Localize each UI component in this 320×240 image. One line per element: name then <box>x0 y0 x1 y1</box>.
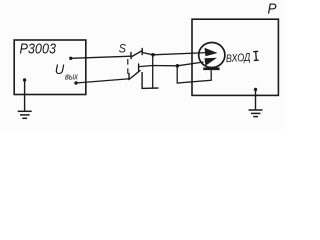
node terminal 2 <box>74 81 77 84</box>
connector VHOD I circle <box>199 43 225 68</box>
wire pole2 contact stub down <box>142 72 158 88</box>
switch S mechanical link (dashed) <box>127 59 129 74</box>
device box P3003 <box>14 40 86 95</box>
node ground terminal of P3003 <box>23 78 26 81</box>
device box P <box>192 19 278 95</box>
wire pole1 output <box>142 53 206 55</box>
svg-text:Р3003: Р3003 <box>20 42 57 58</box>
label VHOD I <box>225 51 259 65</box>
svg-text:ВХОД: ВХОД <box>225 52 250 66</box>
ground (left) <box>18 111 32 118</box>
wire ground stem <box>24 80 26 111</box>
svg-text:вых: вых <box>65 71 78 81</box>
wire junction A down <box>152 55 154 88</box>
switch S pole 2 <box>129 64 140 80</box>
node junction A (pole1 output) <box>151 53 155 57</box>
node terminal 1 <box>69 57 72 60</box>
connector shell bar <box>203 68 219 71</box>
wire ground stem (right) <box>255 90 257 111</box>
connector pin 2 arrow <box>205 58 218 66</box>
node junction B (pole2 output) <box>176 64 180 68</box>
svg-text:S: S <box>119 42 127 56</box>
node ground terminal of P <box>254 88 257 91</box>
wire terminal1 to switch pole1 <box>71 56 131 58</box>
wire pole2 output to connector pin2 <box>139 62 204 67</box>
switch S pole 1 <box>131 49 142 59</box>
svg-text:U: U <box>55 62 65 77</box>
svg-text:Р: Р <box>268 2 277 18</box>
wire terminal2 to switch pole2 <box>76 79 129 83</box>
wire junction B to connector shell bar <box>177 66 211 83</box>
ground (right) <box>249 110 263 117</box>
connector pin 1 arrow <box>205 48 218 56</box>
